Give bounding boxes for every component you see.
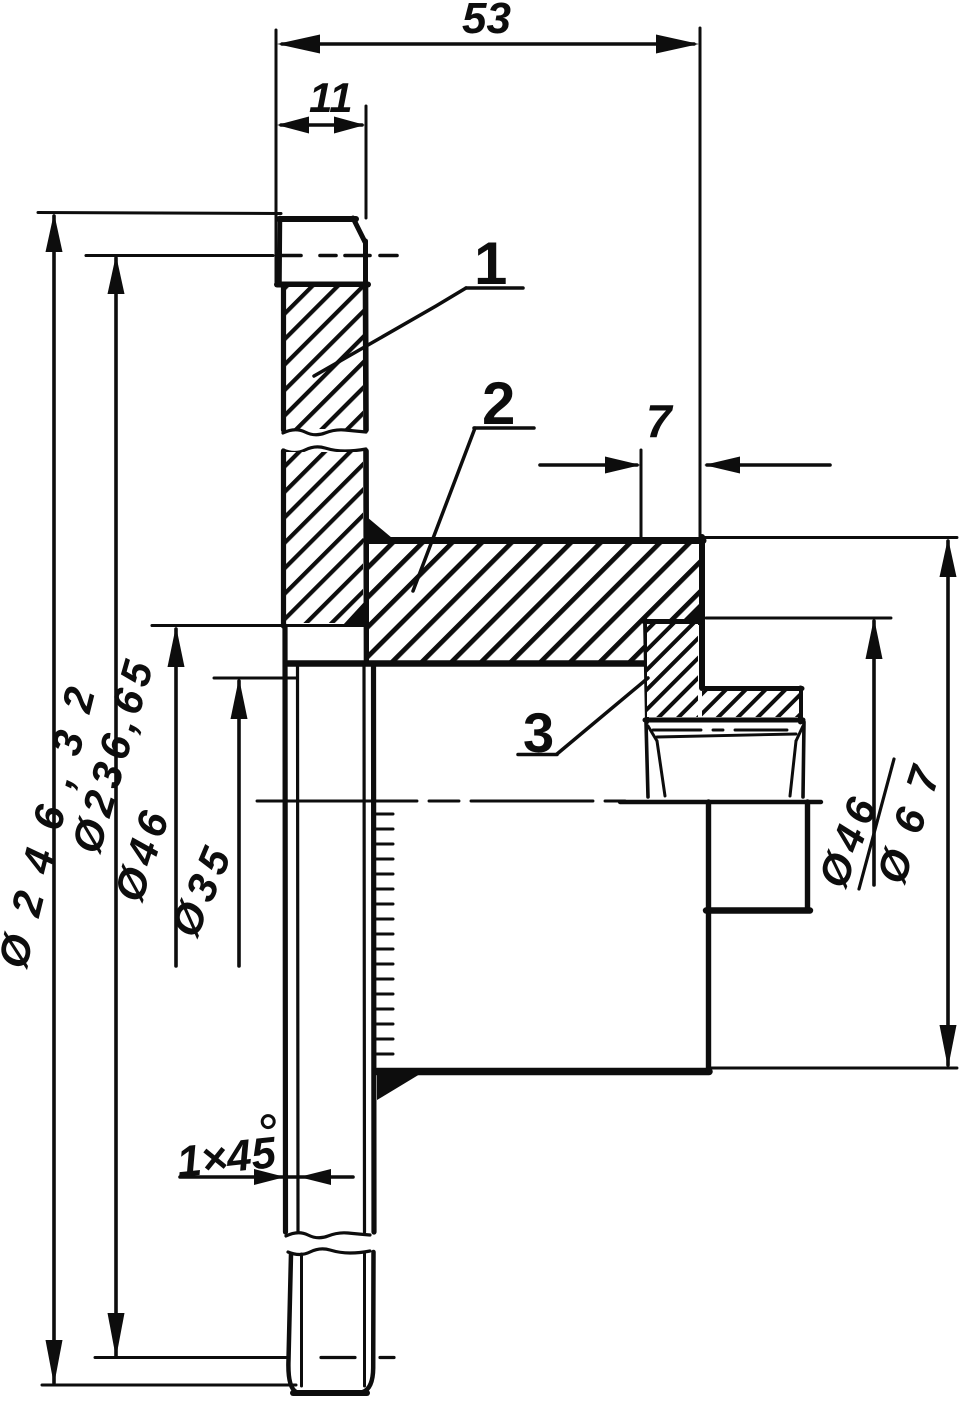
bushing neck line bbox=[657, 734, 796, 737]
bushing flange hatched section bbox=[702, 691, 799, 717]
gear web lines below hub (view) bbox=[285, 626, 374, 1232]
leader line label 3 bbox=[557, 678, 648, 754]
gear rim hatched section (lower part of upper half) bbox=[286, 452, 363, 623]
weld fillet, rim to hub bore shoulder bbox=[343, 600, 366, 625]
dimension O35 vertical line + arrow bbox=[237, 681, 241, 966]
svg-text:53: 53 bbox=[462, 0, 511, 43]
svg-text:1: 1 bbox=[474, 230, 507, 297]
extension line, top of gear rim (O246,32) bbox=[38, 213, 281, 214]
extension line O46 right bbox=[706, 617, 891, 620]
leader line label 2 bbox=[413, 428, 475, 591]
dimension O246,32 vertical line + arrows bbox=[52, 216, 56, 1383]
bushing chamfer left bbox=[648, 726, 657, 741]
hub outer cylinder bottom edge O67 (view), heavy bbox=[377, 1068, 709, 1076]
bushing thread root left bbox=[657, 741, 665, 796]
bushing flange top edge bbox=[704, 686, 802, 691]
bushing flange bottom edge bbox=[645, 718, 803, 723]
bottom tooth (view) bbox=[288, 1252, 373, 1393]
dimension O46 left vertical line + arrow bbox=[174, 629, 178, 966]
pitch dash-dot at bottom tooth + O236,65 extension bbox=[95, 1356, 394, 1359]
hub hatched section (part 2) bbox=[369, 544, 699, 661]
svg-text:11: 11 bbox=[309, 74, 353, 121]
dimension O236,65 vertical line + arrows bbox=[114, 258, 118, 1356]
bushing thread root right bbox=[790, 741, 796, 796]
bushing sleeve left edge bbox=[645, 619, 647, 722]
bushing chamfer right bbox=[796, 726, 803, 741]
bushing thread crest right bbox=[803, 722, 804, 797]
svg-text:2: 2 bbox=[482, 370, 515, 437]
pitch line extension + dash-dot through top tooth (O236,65) bbox=[86, 254, 397, 257]
svg-text:1×45: 1×45 bbox=[174, 1128, 278, 1187]
hub right face below axis (view) bbox=[706, 802, 711, 1071]
weld fillet below hub bottom at web bbox=[377, 1071, 425, 1100]
svg-text:3: 3 bbox=[523, 701, 554, 764]
bushing sleeve top edge bbox=[644, 619, 700, 624]
rim left edge lower bbox=[281, 451, 286, 626]
weld fillet, rim to hub top bbox=[367, 517, 392, 538]
hub right face bbox=[699, 537, 705, 688]
hub bore line O35, heavy bbox=[288, 660, 646, 666]
gear tooth profile, top section bbox=[279, 218, 366, 284]
dimension O46 right vertical line + arrow + underline bbox=[872, 621, 876, 885]
bushing flange right edge bbox=[798, 688, 803, 722]
extension line O67 bottom bbox=[709, 1067, 957, 1070]
bushing flange below axis bottom edge (view) bbox=[706, 907, 810, 913]
bushing thread dash-dot bbox=[653, 729, 787, 732]
extension line O67 right bbox=[703, 536, 957, 539]
bushing thread crest left bbox=[646, 722, 648, 797]
hub top edge, heavy bbox=[366, 537, 703, 544]
extension line O46 left, bore shoulder bbox=[152, 624, 368, 627]
dimension O67 vertical line + arrows bbox=[946, 541, 950, 1065]
dimension 53: extension lines, line, arrows bbox=[275, 30, 278, 284]
break wavy lines in lower web bbox=[286, 1233, 370, 1238]
dimension 1x45: line + arrows bbox=[180, 1175, 353, 1179]
rim left edge upper bbox=[281, 285, 286, 430]
bushing sleeve hatched section (part 3) bbox=[647, 624, 698, 717]
extension line O246,32 bottom bbox=[42, 1384, 296, 1387]
extension line O35 bbox=[214, 677, 296, 680]
tooth root line, heavy bbox=[277, 282, 368, 288]
rim right edge / hub left face bbox=[363, 285, 369, 430]
gear rim hatched section (upper part, part 1) bbox=[286, 287, 363, 429]
dimension 11: line, arrows, right extension bbox=[365, 106, 368, 218]
centre line (axis), dash-dot bbox=[257, 800, 625, 803]
leader line label 1 bbox=[314, 288, 466, 376]
dim text 1x45deg bbox=[173, 1115, 280, 1187]
bushing flange below axis right edge (view) bbox=[805, 802, 810, 910]
weld fillet at sleeve top / hub face bbox=[678, 602, 701, 625]
bushing end line at axis bbox=[620, 800, 821, 804]
weld ticks between web and hub (view) bbox=[376, 814, 393, 1054]
dimension 7: lines, arrows, left extension bbox=[640, 450, 643, 539]
break wavy lines in rim bbox=[283, 430, 366, 435]
svg-text:7: 7 bbox=[646, 395, 674, 447]
